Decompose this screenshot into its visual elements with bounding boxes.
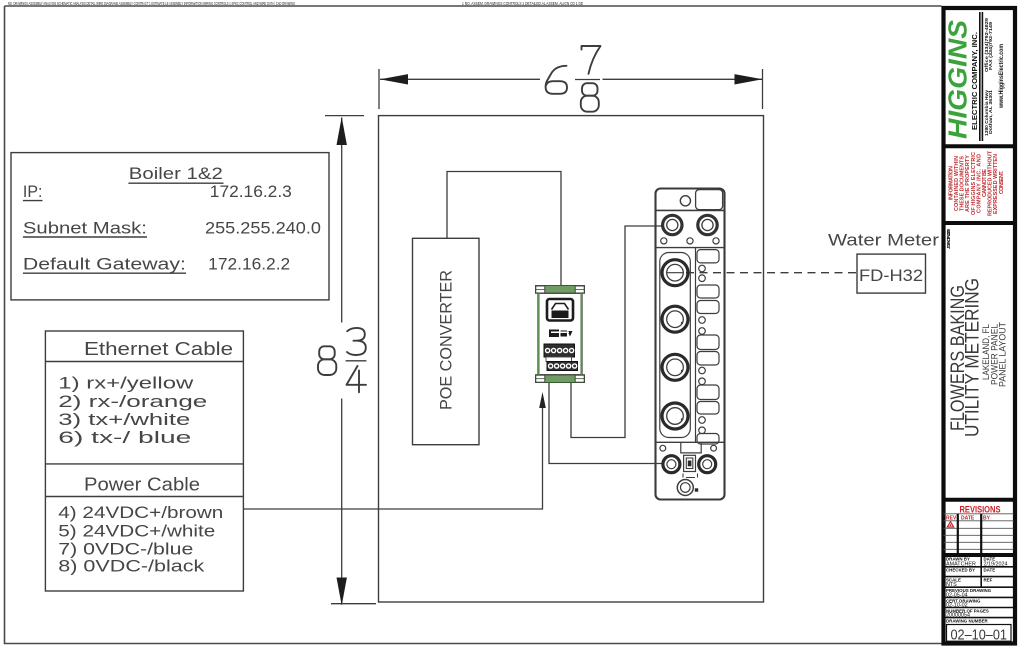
svg-text:8) 0VDC-/black: 8) 0VDC-/black bbox=[58, 558, 205, 576]
svg-text:PANEL LAYOUT: PANEL LAYOUT bbox=[998, 322, 1009, 387]
svg-text:Boiler 1&2: Boiler 1&2 bbox=[129, 165, 223, 183]
svg-text:02-05-04: 02-05-04 bbox=[946, 592, 968, 598]
svg-text:Default Gateway:: Default Gateway: bbox=[23, 255, 186, 273]
svg-text:2) rx-/orange: 2) rx-/orange bbox=[58, 393, 207, 411]
svg-text:AMATCHER: AMATCHER bbox=[946, 562, 976, 568]
svg-text:DATE: DATE bbox=[984, 568, 996, 573]
svg-text:2/19/2024: 2/19/2024 bbox=[984, 562, 1008, 568]
svg-text:www.HigginsElectric.com: www.HigginsElectric.com bbox=[999, 44, 1005, 109]
svg-text:3) tx+/white: 3) tx+/white bbox=[58, 411, 190, 429]
svg-text:JOB NO: TA17289: JOB NO: TA17289 bbox=[946, 229, 952, 249]
svg-text:20000054: 20000054 bbox=[946, 613, 970, 619]
svg-text:5) 24VDC+/white: 5) 24VDC+/white bbox=[58, 522, 215, 540]
svg-text:DATE: DATE bbox=[961, 515, 975, 521]
svg-text:BY: BY bbox=[983, 515, 991, 521]
svg-text:7) 0VDC-/blue: 7) 0VDC-/blue bbox=[58, 541, 193, 559]
svg-text:Water Meter: Water Meter bbox=[828, 231, 939, 250]
svg-text:DRAWING NUMBER: DRAWING NUMBER bbox=[946, 619, 989, 624]
svg-text:Subnet Mask:: Subnet Mask: bbox=[23, 219, 147, 237]
svg-text:HIGGINS: HIGGINS bbox=[943, 19, 973, 139]
svg-text:02-10-02: 02-10-02 bbox=[946, 603, 968, 609]
svg-text:Power Cable: Power Cable bbox=[84, 475, 200, 495]
svg-text:1) rx+/yellow: 1) rx+/yellow bbox=[58, 375, 193, 393]
svg-text:02–10–01: 02–10–01 bbox=[951, 627, 1008, 643]
svg-text:REV: REV bbox=[946, 515, 957, 521]
svg-text:4) 24VDC+/brown: 4) 24VDC+/brown bbox=[58, 504, 223, 522]
svg-text:1 NO. ASSEM. DRAWINGS CONTROLS: 1 NO. ASSEM. DRAWINGS CONTROLS 1 DETAILE… bbox=[462, 1, 583, 6]
svg-text:172.16.2.2: 172.16.2.2 bbox=[208, 255, 290, 273]
svg-text:CONSENT.: CONSENT. bbox=[999, 171, 1005, 195]
svg-text:FAX (334)792-7149: FAX (334)792-7149 bbox=[988, 22, 993, 70]
svg-text:REF: REF bbox=[984, 578, 993, 583]
svg-text:6) tx-/ blue: 6) tx-/ blue bbox=[58, 429, 191, 447]
svg-text:FD-H32: FD-H32 bbox=[859, 266, 923, 285]
svg-text:POE CONVERTER: POE CONVERTER bbox=[437, 270, 456, 410]
svg-text:CHECKED BY: CHECKED BY bbox=[946, 568, 975, 573]
svg-text:NO. DRAWINGS ASSEMBLY ANALYSIS: NO. DRAWINGS ASSEMBLY ANALYSIS SCHEMATIC… bbox=[8, 1, 295, 6]
svg-text:IP:: IP: bbox=[23, 183, 43, 201]
svg-text:ELECTRIC COMPANY, INC.: ELECTRIC COMPANY, INC. bbox=[972, 32, 979, 130]
svg-text:NTS: NTS bbox=[946, 582, 957, 588]
svg-text:255.255.240.0: 255.255.240.0 bbox=[205, 219, 321, 237]
svg-text:Ethernet Cable: Ethernet Cable bbox=[84, 339, 233, 359]
svg-text:Dothan, AL 36301: Dothan, AL 36301 bbox=[988, 90, 993, 134]
svg-text:172.16.2.3: 172.16.2.3 bbox=[210, 183, 292, 201]
